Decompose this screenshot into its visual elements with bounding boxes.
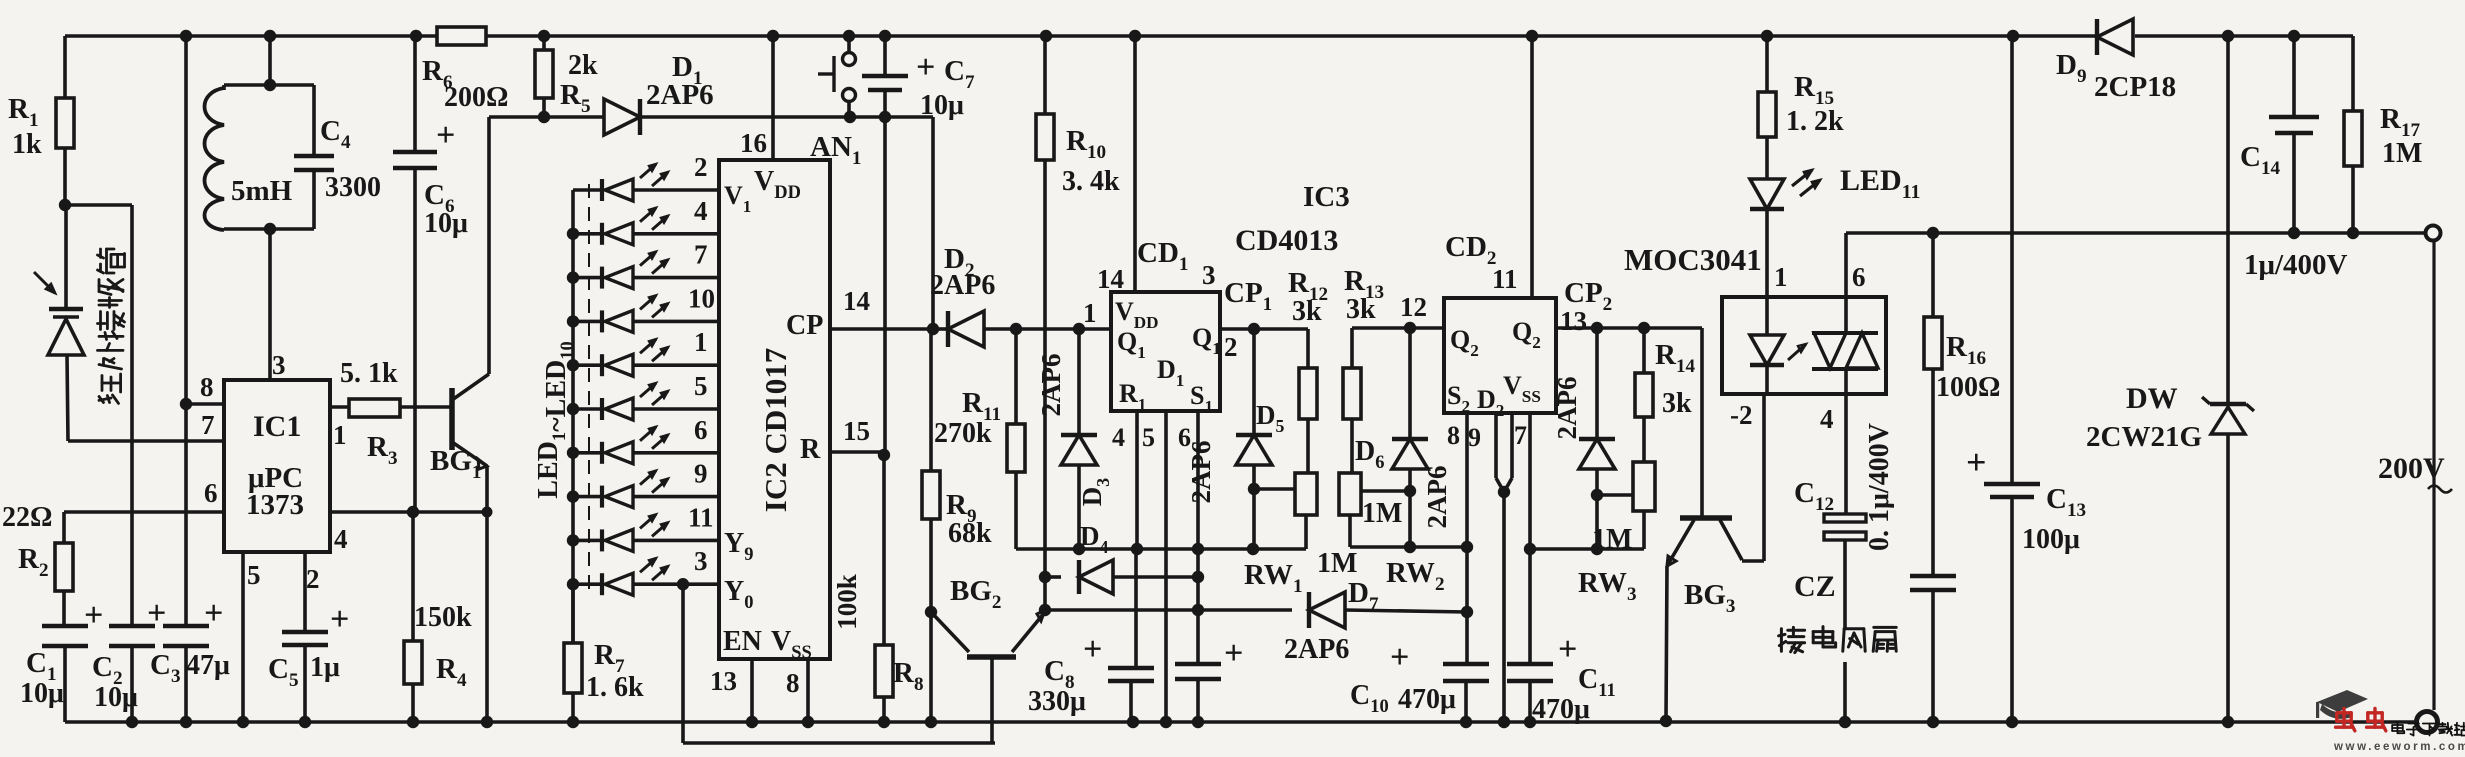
diode D3 (up): [1061, 435, 1097, 465]
svg-text:9: 9: [1468, 423, 1481, 452]
node pin5 gnd: [1160, 716, 1172, 728]
node gnd x=413: [407, 716, 419, 728]
wire DW chain: [2226, 36, 2230, 404]
node LED bus 4: [567, 315, 579, 327]
svg-text:5: 5: [1142, 423, 1155, 452]
wire C13 chain: [2010, 36, 2014, 483]
wire R5 bottom: [542, 98, 546, 117]
junction on top rail x=1046: [1040, 30, 1052, 42]
wire VDD-rail to CP: [931, 117, 935, 329]
diode D6 (up): [1392, 439, 1428, 469]
capacitor C4: [312, 85, 316, 155]
capacitor C2: [109, 624, 155, 629]
wire R2 to C1: [62, 591, 66, 625]
node pin8 junction: [180, 398, 192, 410]
capacitor C1: [42, 624, 88, 629]
svg-text:68k: 68k: [948, 518, 992, 549]
resistor R16: [1924, 317, 1942, 369]
junction on top rail x=544: [538, 30, 550, 42]
MOC light arrow: [1788, 344, 1806, 360]
svg-text:R5: R5: [560, 79, 591, 117]
svg-text:+: +: [1224, 635, 1243, 672]
svg-text:2k: 2k: [568, 50, 598, 81]
wire pin16 VDD: [771, 36, 775, 160]
node LED bus 8: [567, 490, 579, 502]
node R16 top: [1927, 227, 1939, 239]
junction on top rail x=416: [410, 30, 422, 42]
wire R4 to ground: [411, 684, 415, 722]
svg-text:IC3: IC3: [1303, 181, 1350, 213]
wire left vertical (top): [63, 36, 67, 98]
svg-text:3. 4k: 3. 4k: [1062, 166, 1120, 197]
potentiometer RW3: [1633, 462, 1655, 511]
node LC bottom: [264, 223, 276, 235]
junction on top rail x=1767: [1761, 30, 1773, 42]
svg-text:22Ω: 22Ω: [2, 502, 52, 533]
wire RW3 wiper: [1597, 493, 1633, 497]
node R8 gnd: [878, 716, 890, 728]
wire D3 top: [1077, 329, 1081, 434]
svg-text:C14: C14: [2240, 141, 2281, 179]
wire D7 anode right: [1345, 610, 1467, 612]
wire pin15 line: [830, 450, 884, 454]
svg-text:6: 6: [1852, 262, 1866, 292]
capacitor C3: [163, 624, 209, 629]
svg-text:R4: R4: [436, 653, 467, 691]
capacitor C5: [282, 630, 328, 635]
LED8 (LED column): [573, 495, 602, 499]
wire rail to R10: [1043, 36, 1047, 114]
capacitor C11: [1507, 662, 1553, 667]
capacitor C14: [2292, 36, 2296, 116]
node R14 top: [1638, 322, 1650, 334]
node C7 bottom: [879, 111, 891, 123]
node AN1 bottom: [844, 111, 856, 123]
LED2 (LED column): [573, 232, 602, 236]
flip-flop CD1 box: [1111, 292, 1220, 411]
svg-text:2AP6: 2AP6: [1186, 441, 1216, 504]
svg-text:5mH: 5mH: [231, 175, 293, 207]
wire C13 gnd: [2010, 498, 2014, 722]
node gnd x=132: [126, 716, 138, 728]
wire to D1: [544, 115, 603, 119]
node BG2 emitter: [1039, 604, 1051, 616]
wire pin8 stub: [186, 402, 224, 406]
svg-text:1M: 1M: [1317, 548, 1357, 579]
junction on top rail x=270: [264, 30, 276, 42]
svg-text:2AP6: 2AP6: [930, 270, 995, 301]
wire pin13 stub: [750, 659, 754, 722]
MOC internal LED: [1750, 335, 1784, 365]
wire R14 chain: [1642, 328, 1646, 373]
flip-flop CD2 box: [1444, 298, 1556, 413]
svg-text:3: 3: [272, 350, 286, 380]
node DW gnd: [2222, 716, 2234, 728]
node CZ gnd: [1839, 716, 1851, 728]
svg-text:270k: 270k: [934, 418, 992, 449]
svg-text:+: +: [1083, 631, 1102, 668]
svg-text:10μ: 10μ: [920, 90, 964, 121]
wire R14 to RW3: [1642, 417, 1646, 462]
node Y0 branch: [677, 578, 689, 590]
svg-text:15: 15: [843, 416, 870, 446]
resistor R3: [349, 399, 400, 417]
watermark 虫虫: [2342, 709, 2345, 728]
LED LED11: [1750, 179, 1784, 209]
node R17 bottom: [2347, 227, 2359, 239]
node R5/D1: [538, 111, 550, 123]
terminal top-right: [2426, 226, 2441, 241]
wire pin14 CD1: [1133, 36, 1137, 292]
capacitor C9 (unlabeled): [1175, 662, 1221, 667]
transistor BG2: [931, 612, 969, 652]
svg-text:2AP6: 2AP6: [1552, 377, 1582, 440]
svg-text:CZ: CZ: [1794, 570, 1836, 603]
wire collector node ground: [929, 612, 933, 722]
wire LC top bar: [224, 83, 314, 87]
wire to BG2 emitter node: [1043, 577, 1047, 610]
resistor R14: [1635, 373, 1653, 417]
LED1 (LED column): [573, 188, 602, 192]
wire LED11 to pin1: [1765, 210, 1769, 334]
junction on top rail x=2294: [2288, 30, 2300, 42]
wire R16 to cap: [1931, 369, 1935, 575]
wire D1 cathode rail: [641, 115, 933, 119]
wire C10 gnd: [1464, 682, 1468, 722]
node LED bus 9: [567, 534, 579, 546]
pushbutton AN1: [847, 36, 851, 52]
wire R4 chain: [411, 512, 415, 641]
LED4 (LED column): [573, 320, 602, 324]
wire D5 bottom: [1252, 465, 1256, 489]
label 红外接收管 (vertical): [99, 374, 121, 403]
svg-text:+: +: [330, 601, 349, 638]
svg-text:7: 7: [1514, 421, 1527, 450]
wire DW gnd: [2226, 434, 2230, 722]
diode D7 2AP6: [1309, 592, 1345, 628]
svg-text:1373: 1373: [246, 489, 304, 521]
node D3 top: [1073, 323, 1085, 335]
node BG3 gnd: [1660, 715, 1672, 727]
svg-text:2: 2: [694, 152, 708, 182]
wire pin5 IC1 stub: [241, 552, 245, 722]
wire D3 bottom: [1077, 465, 1081, 549]
node C10 gnd: [1460, 716, 1472, 728]
wire pin11 CD2: [1530, 36, 1534, 298]
svg-text:+: +: [436, 117, 455, 154]
svg-text:D6: D6: [1355, 436, 1384, 472]
node D7/S2: [1461, 606, 1473, 618]
wire pin4 to C12: [1844, 394, 1848, 513]
dashed column line: [588, 184, 590, 592]
wire CZ to fan: [1843, 540, 1847, 628]
wire R10 down: [1043, 160, 1047, 577]
optocoupler MOC3041 box: [1722, 297, 1886, 394]
wire BG1 collector up: [487, 117, 491, 374]
node LED bus 5: [567, 359, 579, 371]
wire C7/pin15/R8 vertical: [883, 117, 887, 452]
svg-text:2AP6: 2AP6: [1036, 354, 1066, 417]
node LC top: [264, 79, 276, 91]
light arrow into GM: [34, 272, 55, 293]
svg-text:5. 1k: 5. 1k: [340, 358, 398, 389]
junction on top rail x=849: [843, 30, 855, 42]
wire BG1 emitter down: [485, 466, 489, 722]
svg-text:R14: R14: [1655, 339, 1696, 377]
wire Cx gnd: [1931, 591, 1935, 722]
wire pin6 up: [1844, 233, 1848, 297]
svg-text:RW1: RW1: [1244, 559, 1303, 597]
node LED bus 6: [567, 403, 579, 415]
wire pin6 line to R2: [64, 510, 224, 514]
svg-text:R3: R3: [367, 431, 398, 469]
node C9 gnd: [1192, 716, 1204, 728]
wire RW2 bottom: [1348, 515, 1352, 547]
node emitter/pin4: [482, 507, 493, 518]
wire BG2 base: [990, 657, 994, 743]
node D7/pin6: [1192, 604, 1204, 616]
op-amp IC1 uPC1373 box: [224, 380, 330, 552]
svg-text:13: 13: [710, 666, 737, 696]
svg-text:+: +: [84, 597, 103, 634]
wire pin4 stub: [1135, 411, 1139, 549]
wire D7 line: [1045, 608, 1292, 612]
svg-text:BG1: BG1: [430, 445, 481, 483]
wire pin6 stub: [1196, 411, 1200, 664]
node D4/pin6: [1192, 571, 1204, 583]
resistor R10: [1036, 114, 1054, 160]
resistor R6 (in top rail): [437, 27, 486, 45]
svg-text:3300: 3300: [325, 172, 381, 203]
wire CP1 line: [1220, 327, 1308, 331]
watermark 电子下载站: [2397, 722, 2399, 733]
wire R13 chain: [1350, 328, 1354, 368]
svg-text:14: 14: [1097, 264, 1124, 294]
zener DW 2CW21G: [2210, 402, 2246, 406]
svg-text:8: 8: [786, 668, 800, 698]
svg-text:7: 7: [201, 410, 215, 440]
svg-text:12: 12: [1400, 292, 1427, 322]
diode D1 2AP6: [604, 99, 640, 135]
svg-text:9: 9: [694, 459, 708, 489]
wire pin2 IC1 stub: [303, 552, 307, 631]
wire pin12 line: [1352, 326, 1444, 330]
svg-text:7: 7: [694, 240, 708, 270]
node pin15/C7R8: [878, 449, 890, 461]
wire C11 gnd: [1528, 682, 1532, 722]
svg-text:BG2: BG2: [950, 575, 1001, 613]
wire top supply rail: [65, 34, 437, 38]
svg-text:C4: C4: [320, 115, 351, 153]
potentiometer RW2: [1339, 473, 1361, 515]
resistor R5: [535, 50, 553, 98]
wire bus to R7: [571, 584, 575, 643]
node C8 gnd: [1127, 716, 1139, 728]
node RW1 wiper: [1248, 483, 1260, 495]
diode D4 2AP6: [1079, 560, 1113, 594]
node y549 x=1253: [1247, 543, 1259, 555]
capacitor C12 (boxes): [1824, 514, 1866, 522]
node LED bus 2: [567, 228, 579, 240]
svg-text:CP1: CP1: [1224, 277, 1272, 315]
wire pin4 line: [330, 510, 487, 514]
node GM junction: [59, 199, 71, 211]
svg-text:+: +: [204, 595, 223, 632]
wire pin3 of IC1: [268, 229, 272, 380]
svg-text:6: 6: [694, 415, 708, 445]
svg-text:13: 13: [1560, 306, 1587, 336]
svg-text:C5: C5: [268, 653, 299, 691]
wire R15 to LED11: [1765, 137, 1769, 178]
svg-text:D5: D5: [1256, 400, 1285, 436]
wire D8 chain: [1595, 328, 1599, 438]
resistor R11: [1007, 424, 1025, 472]
node D2pin merge: [1498, 486, 1510, 498]
svg-text:3: 3: [694, 546, 708, 576]
resistor R13: [1343, 368, 1361, 419]
node D2pin gnd: [1498, 716, 1510, 728]
node D8/RW3 bottom: [1591, 543, 1603, 555]
node gnd x=186: [180, 716, 192, 728]
svg-text:MOC3041: MOC3041: [1624, 242, 1762, 277]
wire RW3 bottom: [1642, 511, 1646, 549]
svg-text:100k: 100k: [832, 574, 862, 630]
wire R12 to RW1: [1306, 419, 1310, 473]
svg-text:R10: R10: [1066, 125, 1106, 163]
wire D6 bottom: [1408, 469, 1412, 491]
svg-text:C10: C10: [1350, 680, 1389, 716]
wire pin4 to C8: [1134, 549, 1138, 667]
wire BG3 emitter gnd: [1666, 566, 1667, 719]
wire D8 bottom: [1595, 469, 1599, 495]
terminal bottom-right: [2417, 712, 2438, 733]
svg-text:+: +: [1390, 639, 1409, 676]
wire D5 chain: [1252, 329, 1256, 434]
svg-text:IC2 CD1017: IC2 CD1017: [758, 348, 793, 512]
svg-text:R17: R17: [2380, 103, 2421, 141]
wire CP2 line: [1556, 326, 1702, 330]
node D8 top: [1591, 322, 1603, 334]
node gnd x=243: [237, 716, 249, 728]
node gnd x=487: [481, 716, 493, 728]
junction on top rail x=1135: [1129, 30, 1141, 42]
resistor R15: [1758, 92, 1776, 137]
junction on top rail x=186: [180, 30, 192, 42]
svg-text:10μ: 10μ: [424, 208, 468, 239]
svg-text:CD1: CD1: [1137, 237, 1188, 275]
wire C9 gnd: [1196, 680, 1200, 722]
svg-text:8: 8: [200, 372, 214, 402]
svg-text:100μ: 100μ: [2022, 524, 2080, 555]
svg-text:14: 14: [843, 286, 870, 316]
wire R3 to BG1 base: [400, 405, 452, 409]
capacitor Cx (under R16): [1910, 574, 1956, 579]
MOC internal triac: [1844, 297, 1848, 333]
LED9 (LED column): [573, 539, 602, 543]
LED5 (LED column): [573, 363, 602, 367]
node LED bus 7: [567, 447, 579, 459]
svg-text:1M: 1M: [1362, 498, 1402, 529]
wire C5 gnd: [303, 646, 307, 722]
node S2 line j: [1461, 541, 1473, 553]
junction on top rail x=773: [767, 30, 779, 42]
resistor R4: [404, 641, 422, 684]
svg-text:1k: 1k: [12, 129, 42, 160]
resistor R9: [922, 471, 940, 519]
junction on top rail x=885: [879, 30, 891, 42]
resistor R1: [56, 98, 74, 148]
wire R11 to Y-line: [1014, 472, 1018, 549]
IC2 CD1017 box: [719, 160, 830, 659]
svg-text:330μ: 330μ: [1028, 686, 1086, 717]
node y549 x=1198: [1192, 543, 1204, 555]
svg-text:CD4013: CD4013: [1235, 224, 1338, 257]
wire rail to pin8/C3: [184, 36, 188, 625]
wire D4 line: [1045, 575, 1061, 579]
svg-text:C12: C12: [1794, 477, 1834, 515]
svg-text:RW3: RW3: [1578, 567, 1637, 605]
svg-text:3k: 3k: [1346, 294, 1376, 325]
svg-text:+: +: [1966, 442, 1987, 482]
node y549 x=1137: [1131, 543, 1143, 555]
svg-text:1: 1: [694, 327, 708, 357]
wire R16 chain: [1931, 233, 1935, 317]
svg-text:D9: D9: [2056, 49, 2087, 87]
wire pin5 stub: [1164, 411, 1168, 722]
svg-text:5: 5: [694, 371, 708, 401]
LED7 (LED column): [573, 451, 602, 455]
svg-text:2AP6: 2AP6: [646, 79, 714, 111]
junction on top rail x=2228: [2222, 30, 2234, 42]
svg-text:5: 5: [247, 560, 261, 590]
svg-text:200V: 200V: [2378, 452, 2445, 485]
inductor L 5mH: [205, 88, 225, 230]
svg-text:100Ω: 100Ω: [1936, 372, 2000, 403]
node Cx gnd: [1927, 716, 1939, 728]
wire RW2 wiper: [1361, 489, 1410, 493]
svg-text:CD2: CD2: [1445, 231, 1496, 269]
svg-text:RW2: RW2: [1386, 557, 1445, 595]
svg-text:10μ: 10μ: [94, 682, 138, 713]
svg-text:D3: D3: [1077, 478, 1113, 507]
wire D2 cathode left: [933, 327, 948, 331]
wire pin14 CP line: [830, 327, 929, 331]
node C11 gnd: [1524, 716, 1536, 728]
capacitor C13: [1984, 482, 2040, 487]
svg-text:1: 1: [1774, 262, 1788, 292]
node C14 bottom: [2288, 227, 2300, 239]
diode D5 (up): [1236, 435, 1272, 465]
wire C2 branch: [66, 203, 132, 207]
node LED bus 3: [567, 271, 579, 283]
svg-text:IC1: IC1: [253, 410, 301, 443]
svg-text:C3: C3: [150, 649, 181, 687]
svg-text:11: 11: [1492, 264, 1518, 294]
svg-text:2: 2: [306, 564, 320, 594]
wire D6 chain: [1408, 328, 1412, 438]
svg-text:3k: 3k: [1292, 296, 1322, 327]
wire BG3 collector to MOC pin2: [1762, 394, 1766, 561]
wire internal LED to pin2: [1765, 366, 1769, 394]
node D5 top: [1248, 323, 1260, 335]
wire CP2 to BG3 base: [1700, 328, 1704, 516]
LED3 (LED column): [573, 276, 602, 280]
wire C1 to ground rail: [63, 647, 67, 722]
wire pin7 stub: [1528, 413, 1532, 664]
svg-text:LED1~LED10: LED1~LED10: [533, 341, 577, 498]
wire R11 chain: [1014, 329, 1018, 424]
node R11 top: [1010, 323, 1022, 335]
